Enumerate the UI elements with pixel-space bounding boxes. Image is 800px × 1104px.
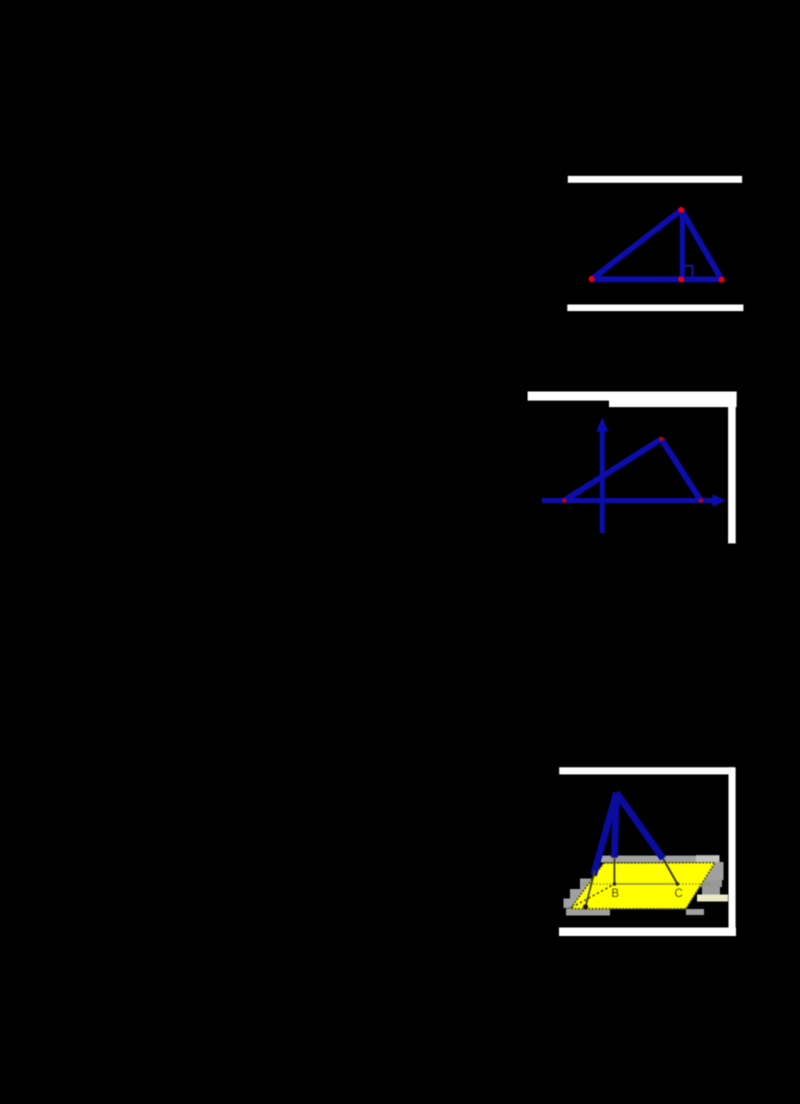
figure 3: segment B-C xyxy=(614,883,677,885)
white rule above figure 1 xyxy=(568,176,742,183)
figure 3: dashed segment corner to B xyxy=(572,884,615,907)
figure 3: thin line to B xyxy=(613,857,615,884)
figure 3: gray artifact left step 2 xyxy=(570,889,587,899)
figure 3: gray band above plane top edge xyxy=(601,856,719,863)
figure 2: x-axis shaft xyxy=(542,498,716,503)
figure 1: altitude T-M xyxy=(680,210,685,279)
white rule below figure 3 xyxy=(559,928,736,937)
figure 1: triangle left side BL-T xyxy=(592,210,682,279)
figure 3: point left foot xyxy=(583,904,588,909)
figure 1: point foot of altitude xyxy=(678,276,684,282)
figure 3: brighter gray above top-right corner xyxy=(696,855,720,862)
figure 3: gray artifact left step 1 xyxy=(580,879,596,890)
figure 1: point bottom-right vertex xyxy=(719,277,725,283)
figure 1: right-angle mark at M xyxy=(685,266,693,277)
figure 3: thick edge apex down to B xyxy=(614,793,616,858)
white rule below figure 1 xyxy=(567,305,743,312)
figure 3: gray artifact right step 2 xyxy=(699,880,722,887)
figure 2: point left vertex xyxy=(562,498,566,502)
svg-text:C: C xyxy=(675,888,683,900)
figure 1: point bottom-left vertex xyxy=(589,276,595,282)
figure 3: gray artifact right step 3 xyxy=(702,887,720,895)
figure 3: thick edge apex to C xyxy=(616,793,663,859)
figure 2: point top vertex xyxy=(659,437,663,441)
figure 2: point right vertex xyxy=(699,498,703,502)
figure 1: point top vertex xyxy=(678,207,684,213)
white bar right of figure 2 xyxy=(728,400,736,543)
figure 3: gray artifact left step 3 xyxy=(564,899,579,909)
svg-text:B: B xyxy=(611,888,619,900)
figure 3: thick edge apex to left xyxy=(594,793,617,876)
figure 3: dotted mid line on plane xyxy=(583,883,711,885)
figure 2: x-axis arrowhead xyxy=(713,494,726,506)
figure 3: thin line to left foot xyxy=(586,871,595,907)
figure 3: gray artifact right step 1 xyxy=(702,862,724,880)
white rule above figure 2 (left part) xyxy=(528,392,737,401)
white bar right of figure 3 xyxy=(729,767,736,928)
figure 3: point C xyxy=(676,882,680,886)
figure 2: y-axis shaft xyxy=(600,428,605,533)
figure 2: y-axis arrowhead xyxy=(596,418,608,432)
figure 3: yellow plane parallelogram xyxy=(570,863,715,909)
figure 3: thin line to C xyxy=(663,859,677,884)
figure 3: gray artifact below plane left xyxy=(566,909,610,916)
figure 1: triangle right side T-BR xyxy=(681,210,721,279)
figure 3: point B xyxy=(613,882,617,886)
white rule above figure 3 xyxy=(559,767,734,774)
figure 3: pale band right of plane xyxy=(697,895,728,902)
figure 3: gray artifact below plane right xyxy=(686,909,704,915)
white rule above figure 2 (right thick part) xyxy=(609,392,737,408)
figure 2: triangle left side xyxy=(564,439,661,501)
figure 1: triangle base BL-BR xyxy=(592,276,722,282)
figure 2: triangle right side xyxy=(661,439,701,501)
